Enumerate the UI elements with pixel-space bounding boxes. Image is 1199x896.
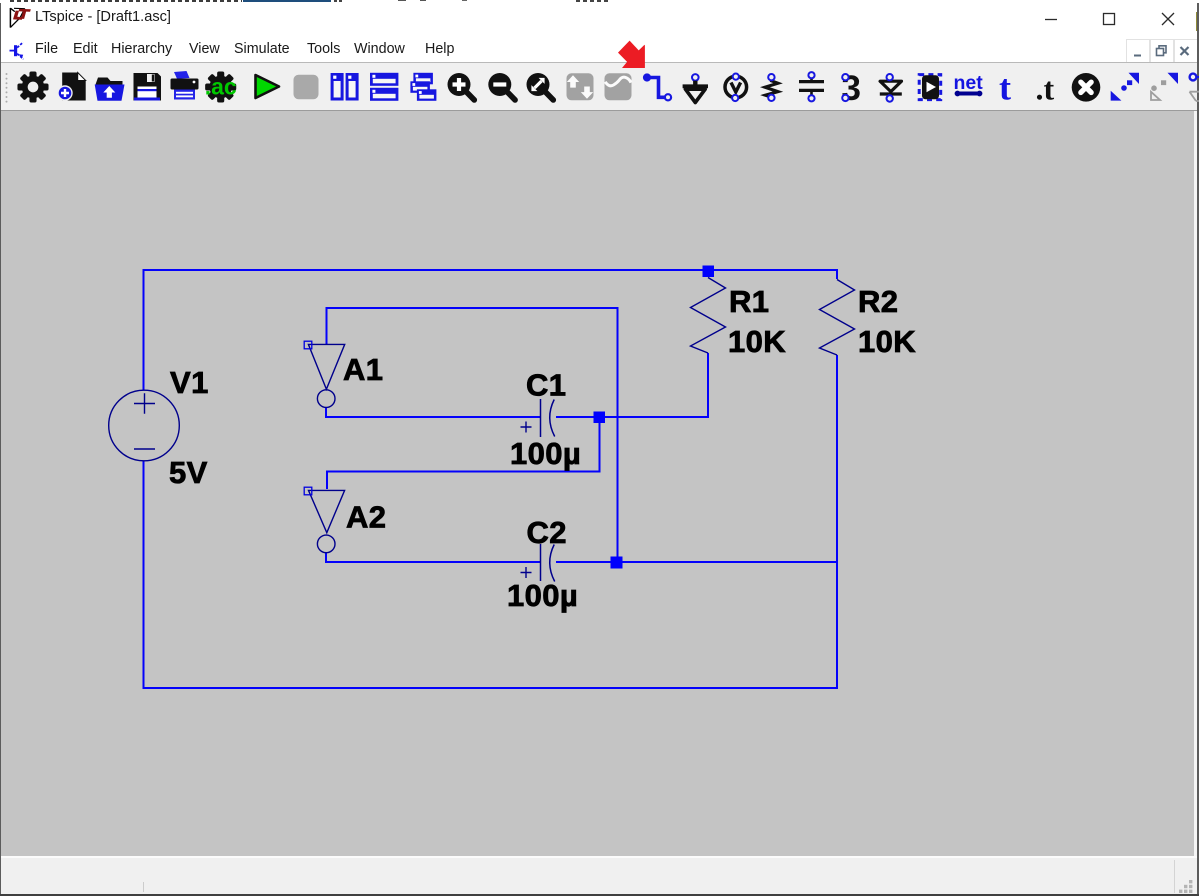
wire A1 input long vertical (617, 307, 619, 557)
wire A2 input drop (326, 471, 328, 490)
wire left rail lower (143, 461, 145, 689)
svg-text:10K: 10K (858, 324, 916, 359)
window frame (0, 3, 1, 894)
icon: cascade (410, 73, 436, 101)
icon: tile vertical (331, 73, 359, 101)
icon: wire (643, 73, 671, 100)
wire A2 out to C2 (325, 561, 540, 563)
svg-text:V1: V1 (170, 365, 209, 400)
node junction top (703, 266, 715, 278)
node junction C2 out (611, 557, 623, 569)
icon: pan (disabled) (567, 73, 594, 100)
icon: resistor (765, 74, 778, 101)
icon: label net name (954, 72, 984, 96)
wire A2 input horizontal (327, 471, 601, 473)
icon: text (999, 68, 1011, 108)
top sliver of background window (0, 0, 1199, 3)
red cursor (610, 36, 654, 72)
icon: print (171, 71, 199, 100)
labels (169, 284, 916, 613)
wire C1 to node (556, 416, 594, 418)
svg-text:.ac: .ac (205, 74, 237, 100)
icon: move (1111, 73, 1139, 101)
icon: label net (725, 74, 747, 102)
svg-text:C1: C1 (526, 368, 566, 403)
inverter A2 body (309, 490, 345, 552)
svg-text:R2: R2 (858, 284, 898, 319)
toolbar (0, 63, 1199, 110)
svg-text:.t: .t (1036, 71, 1055, 107)
svg-text:A1: A1 (343, 352, 383, 387)
plus mark C2 (521, 567, 532, 578)
wire top rail (144, 269, 838, 271)
icon: save (134, 73, 162, 101)
wire A1 input horizontal (325, 307, 617, 309)
svg-text:5V: 5V (169, 455, 208, 490)
plus mark C1 (521, 422, 532, 433)
status bar (0, 856, 1199, 858)
wire A1 out to C1 (325, 416, 540, 418)
wire R1 bottom lead (707, 353, 709, 418)
wire A1 out vertical (325, 408, 327, 418)
icon: waveform (disabled) (605, 73, 632, 100)
capacitor C2 body (541, 544, 555, 582)
icon: spice directive (1036, 71, 1055, 107)
icon: ground (683, 74, 708, 102)
inverter A1 body (308, 344, 344, 407)
pin marker A2 (304, 487, 312, 495)
icon: control panel gear (11, 65, 55, 109)
icon: component (919, 75, 941, 100)
separator under menu (0, 62, 1199, 63)
icon: capacitor (799, 72, 824, 101)
icon: open (95, 78, 125, 101)
wire node C1 down (599, 421, 601, 472)
wire A1 input rise (325, 308, 327, 344)
pin marker A1 (304, 341, 312, 349)
svg-text:100µ: 100µ (507, 578, 578, 613)
node junction C1 out (594, 412, 606, 424)
svg-text:A2: A2 (346, 500, 386, 535)
window controls (1030, 3, 1190, 37)
icon: .ac analysis gear (199, 65, 243, 109)
icon: zoom in (448, 73, 475, 100)
icon: zoom out (488, 73, 515, 100)
icon: drag (disabled) (1151, 73, 1178, 100)
title bar (0, 3, 1199, 37)
menu bar (0, 37, 1199, 62)
icon: inductor (842, 69, 861, 108)
TOOLBAR ICONS SVG (0, 63, 1199, 110)
cursor arrow (618, 41, 645, 68)
svg-text:10K: 10K (728, 324, 786, 359)
LTspice app icon (8, 6, 34, 30)
icon: diode (880, 74, 902, 102)
svg-text:100µ: 100µ (510, 436, 581, 471)
capacitor C1 body (541, 399, 555, 437)
icon: partial at right edge (1190, 74, 1199, 101)
svg-text:R1: R1 (729, 284, 769, 319)
wire R2 top lead (836, 269, 838, 279)
wire left rail upper (143, 269, 145, 390)
resistor R1 body (691, 278, 726, 354)
voltage source V1 body (109, 390, 180, 461)
toolbar grip (6, 73, 8, 103)
wire C2 to right rail (622, 561, 838, 563)
wire right rail (836, 355, 838, 688)
wire bottom rail (143, 687, 839, 689)
MDI child buttons (1126, 39, 1150, 63)
wire A2 out vertical (325, 553, 327, 563)
resistor R2 body (820, 280, 855, 356)
icon: tile horizontal (370, 73, 398, 101)
icon: cut (1072, 73, 1101, 102)
schematic doc icon (blue transistor) (8, 39, 26, 61)
wire C2 to node (556, 561, 612, 563)
wire node to R1 (604, 416, 709, 418)
icon: new schematic (58, 73, 86, 101)
icon: run (256, 75, 280, 98)
svg-text:t: t (999, 68, 1011, 108)
icon: halt (disabled) (294, 75, 319, 99)
icon: zoom full extents (527, 73, 554, 100)
svg-text:C2: C2 (527, 515, 567, 550)
